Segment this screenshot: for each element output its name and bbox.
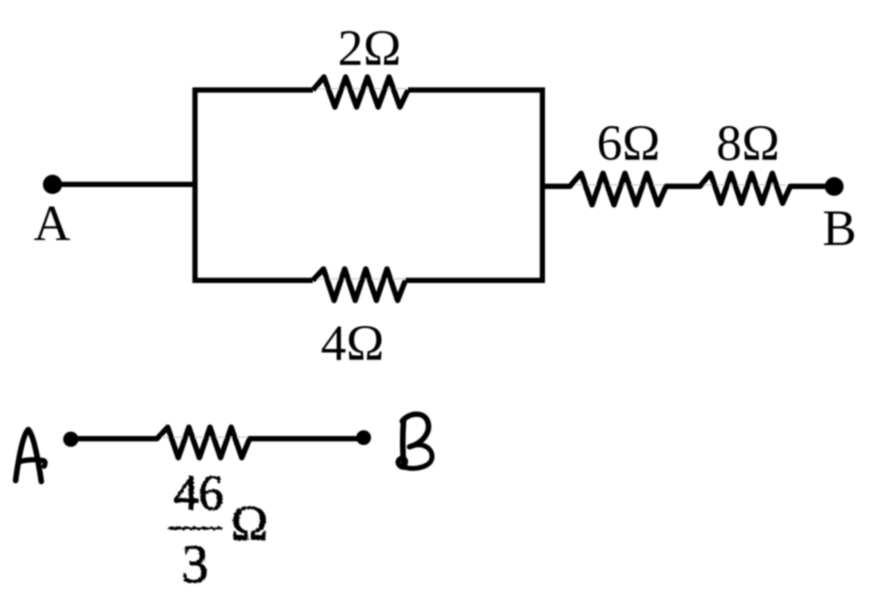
svg-text:A: A: [34, 196, 71, 252]
svg-text:B: B: [822, 201, 856, 257]
svg-text:8Ω: 8Ω: [716, 116, 779, 172]
svg-text:3: 3: [182, 534, 209, 594]
svg-text:2Ω: 2Ω: [338, 21, 401, 77]
svg-text:6Ω: 6Ω: [597, 116, 660, 172]
svg-text:Ω: Ω: [231, 495, 268, 551]
svg-text:46: 46: [174, 464, 224, 520]
svg-text:4Ω: 4Ω: [321, 316, 384, 372]
